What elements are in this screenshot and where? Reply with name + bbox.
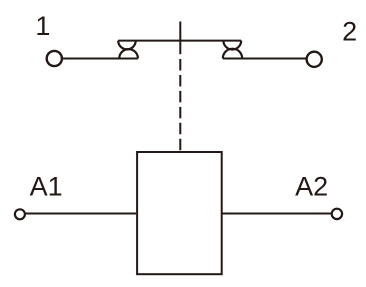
coil [137, 152, 222, 274]
wire terminal 1 [63, 58, 138, 60]
terminal circle A1 [15, 209, 25, 219]
contact bridge wire [118, 40, 241, 42]
actuator link dashed segment [179, 59, 181, 151]
wire A1 [26, 213, 137, 215]
terminal circle 2 [307, 52, 322, 67]
svg-text:1: 1 [35, 11, 50, 41]
wire terminal 2 [223, 58, 306, 60]
svg-text:2: 2 [342, 17, 357, 47]
terminal circle A2 [332, 209, 342, 219]
svg-text:A1: A1 [30, 172, 63, 202]
fixed contact right semicircle [223, 49, 242, 59]
moving contact left semicircle [118, 41, 136, 50]
wire A2 [222, 213, 331, 215]
fixed contact left semicircle [119, 49, 138, 58]
svg-text:A2: A2 [295, 172, 328, 202]
moving contact right semicircle [223, 41, 241, 50]
actuator link solid segment [179, 22, 181, 55]
terminal circle 1 [47, 51, 62, 66]
